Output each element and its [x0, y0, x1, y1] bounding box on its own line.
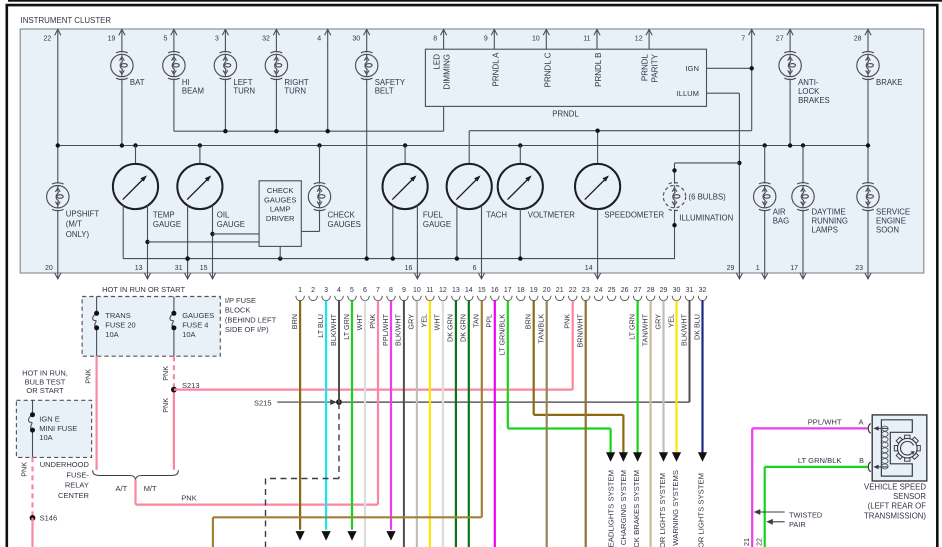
svg-text:CHECK: CHECK — [267, 186, 294, 195]
svg-text:7: 7 — [376, 287, 380, 294]
wire TEMP left to gauge rail — [122, 205, 124, 258]
svg-text:DIMMING: DIMMING — [443, 54, 452, 90]
svg-text:CHARGING SYSTEM: CHARGING SYSTEM — [619, 470, 628, 545]
svg-text:16: 16 — [491, 287, 499, 294]
wire bus to VOLTMETER — [519, 146, 521, 165]
svg-text:15: 15 — [200, 265, 208, 272]
wire PNK brace output — [134, 480, 136, 505]
svg-text:18: 18 — [517, 287, 525, 294]
svg-text:2: 2 — [311, 287, 315, 294]
svg-text:B: B — [859, 456, 864, 465]
connector terminal 24 — [594, 296, 603, 301]
splice S213 — [171, 387, 177, 393]
wire 3 LT BLU — [325, 301, 327, 530]
connector terminal 32 — [698, 296, 707, 301]
connector terminal 2 — [309, 296, 318, 301]
svg-text:28: 28 — [647, 287, 655, 294]
svg-text:ONLY): ONLY) — [66, 230, 90, 239]
svg-text:GAUGES: GAUGES — [264, 195, 297, 204]
svg-text:UPSHIFT: UPSHIFT — [66, 209, 100, 218]
svg-text:7: 7 — [741, 36, 745, 43]
wire 3 arrow — [322, 531, 331, 541]
ign rail — [469, 130, 752, 132]
svg-text:20: 20 — [543, 287, 551, 294]
svg-text:ILLUM: ILLUM — [677, 89, 699, 98]
wire UPSHIFT bulb to pin 20 — [57, 210, 59, 273]
svg-text:IGN: IGN — [685, 64, 699, 73]
node bus x=764.7 — [763, 143, 767, 147]
pin 31 bottom arrow — [187, 273, 189, 279]
svg-text:PPL: PPL — [485, 314, 494, 328]
node bus x=57.8 — [56, 143, 60, 147]
wire OIL left to pin 31 — [187, 205, 189, 273]
VSS terminal B cup — [868, 462, 870, 472]
gauge TACH — [447, 164, 492, 209]
connector terminal 19 — [529, 296, 538, 301]
indicator bulb ILLUMINATION (dashed) — [663, 183, 685, 211]
pin 32 arrow — [273, 29, 279, 35]
node OIL right - driver stub — [210, 232, 214, 236]
svg-text:BRN: BRN — [524, 314, 533, 329]
node lamp rail - pin 4 — [326, 129, 330, 133]
gauge VOLTMETER — [498, 164, 543, 209]
brace A/T M/T — [93, 470, 179, 479]
svg-text:UNDERHOOD: UNDERHOOD — [40, 460, 90, 469]
svg-text:TRANSMISSION): TRANSMISSION) — [864, 511, 926, 520]
wire 8 arrow — [386, 531, 395, 541]
svg-text:M/T: M/T — [144, 484, 157, 493]
svg-text:30: 30 — [673, 287, 681, 294]
pin 4 arrow — [325, 29, 331, 35]
wire VOLTMETER to gauge rail — [519, 209, 521, 259]
svg-text:25: 25 — [608, 287, 616, 294]
pin 20 bottom arrow — [57, 273, 59, 279]
wire bus to TEMP gauge — [135, 146, 137, 165]
svg-text:ILLUMINATION: ILLUMINATION — [679, 213, 733, 222]
node IGN - pin7 wire — [750, 66, 754, 70]
svg-text:ENGINE: ENGINE — [876, 216, 906, 225]
wire S215 rail — [339, 401, 690, 403]
svg-text:6: 6 — [363, 287, 367, 294]
connector terminal 1 — [296, 296, 305, 301]
svg-text:EXTERIOR LIGHTS SYSTEM: EXTERIOR LIGHTS SYSTEM — [696, 473, 705, 547]
indicator bulb RIGHT TURN — [265, 52, 287, 80]
fuse GAUGES FUSE 4 10A — [170, 313, 174, 328]
svg-text:VOLTMETER: VOLTMETER — [528, 211, 575, 220]
svg-text:DK GRN: DK GRN — [459, 314, 468, 342]
svg-text:19: 19 — [530, 287, 538, 294]
wire 17 LT GRN/BLK — [507, 301, 509, 429]
wire 8 PPL/WHT — [390, 301, 392, 530]
connector terminal 17 — [504, 296, 513, 301]
wire 6 WHT — [364, 301, 366, 547]
node lamp rail - LEFT TURN — [223, 129, 227, 133]
svg-text:5: 5 — [163, 36, 167, 43]
svg-text:PNK: PNK — [20, 462, 29, 477]
svg-text:HEADLIGHTS SYSTEM: HEADLIGHTS SYSTEM — [606, 470, 615, 547]
gauge rail — [123, 258, 675, 260]
gauge TEMP GAUGE — [113, 164, 158, 209]
gauge OIL GAUGE — [177, 164, 222, 209]
node lamp rail - RIGHT TURN — [274, 129, 278, 133]
wire ILLUM output — [707, 92, 740, 94]
connector terminal 4 — [335, 296, 344, 301]
pin 29 bottom arrow — [738, 273, 740, 279]
svg-text:CENTER: CENTER — [58, 491, 89, 500]
connector terminal 23 — [581, 296, 590, 301]
svg-text:DAYTIME: DAYTIME — [812, 207, 846, 216]
svg-text:29: 29 — [660, 287, 668, 294]
svg-text:TAN/WHT: TAN/WHT — [640, 313, 649, 346]
wire RIGHT TURN bulb to lamp rail — [275, 79, 277, 132]
wire DAYTIME bulb to pin 17 — [802, 210, 804, 273]
wire SERVICE bulb to pin 23 — [867, 210, 869, 273]
wire PPL/WHT to VSS — [752, 427, 868, 429]
wire 10 GRY — [416, 301, 418, 547]
wire pin 3 to LEFT TURN bulb — [224, 29, 226, 52]
wire 14 DK GRN — [468, 301, 470, 547]
wire TACH right to pin 6 — [481, 205, 483, 273]
svg-text:10A: 10A — [39, 433, 52, 442]
wire FUEL left to gauge rail — [392, 205, 394, 258]
connector terminal 5 — [348, 296, 357, 301]
svg-text:21: 21 — [742, 538, 751, 546]
wire TACH left to gauge rail — [456, 205, 458, 258]
wire BRAKE bulb to SERVICE bulb — [867, 79, 869, 184]
svg-text:ANTI-: ANTI- — [798, 78, 819, 87]
svg-text:SENSOR: SENSOR — [893, 492, 926, 501]
svg-text:GRY: GRY — [407, 314, 416, 330]
pin 12 arrow — [646, 29, 652, 35]
indicator bulb DAYTIME RUNNING LAMPS — [792, 183, 814, 211]
wire illumination bulb to gauge rail — [674, 210, 676, 259]
svg-text:6: 6 — [473, 265, 477, 272]
pin 3 arrow — [222, 29, 228, 35]
gauge SPEEDOMETER — [575, 164, 620, 209]
wire bus to CHECK GAUGES bulb — [319, 146, 321, 184]
wire AIR BAG bulb to pin 1 — [764, 210, 766, 273]
svg-text:VEHICLE SPEED: VEHICLE SPEED — [864, 482, 926, 491]
I/P fuse block box — [82, 297, 220, 357]
svg-text:BLOCK: BLOCK — [225, 306, 250, 315]
connector terminal 27 — [633, 296, 642, 301]
svg-text:12: 12 — [635, 36, 643, 43]
svg-text:PPL/WHT: PPL/WHT — [808, 417, 842, 426]
pin 27 arrow — [787, 29, 793, 35]
svg-text:(M/T: (M/T — [66, 220, 82, 229]
svg-text:LT GRN: LT GRN — [627, 314, 636, 340]
node gauge rail x=187.6 — [185, 256, 189, 260]
wire driver box to gauge rail — [279, 246, 281, 258]
lamp rail — [174, 130, 444, 132]
svg-text:1: 1 — [756, 265, 760, 272]
node bus x=405.1 — [403, 143, 407, 147]
wire pin 10 to PRNDL box — [545, 29, 547, 49]
wire PNK TRANS fuse output — [95, 356, 97, 470]
svg-text:PNK: PNK — [368, 314, 377, 329]
svg-text:BELT: BELT — [375, 87, 394, 96]
svg-text:(BEHIND LEFT: (BEHIND LEFT — [225, 315, 277, 324]
wire 19 arrow — [619, 452, 628, 462]
svg-text:19: 19 — [108, 36, 116, 43]
svg-text:SERVICE: SERVICE — [876, 207, 910, 216]
svg-text:GAUGES: GAUGES — [328, 220, 361, 229]
svg-text:LAMPS: LAMPS — [812, 225, 838, 234]
wire 23 BRN/WHT — [585, 301, 587, 547]
svg-text:4: 4 — [337, 287, 341, 294]
svg-text:3: 3 — [215, 36, 219, 43]
wire HI BEAM bulb to lamp rail — [173, 79, 175, 132]
svg-text:9: 9 — [402, 287, 406, 294]
fuse IGN E MINI FUSE 10A — [29, 415, 33, 430]
S215 pointer — [277, 401, 333, 403]
svg-text:DRIVER: DRIVER — [266, 214, 295, 223]
pin 30 arrow — [364, 29, 370, 35]
svg-text:10: 10 — [532, 36, 540, 43]
pin 8 arrow — [441, 29, 447, 35]
node gauge rail x=456.9 — [455, 256, 459, 260]
svg-text:29: 29 — [727, 265, 735, 272]
svg-text:FUEL: FUEL — [423, 211, 444, 220]
wire 19 BRN — [533, 301, 535, 415]
svg-text:I/P FUSE: I/P FUSE — [225, 296, 256, 305]
wire BAT bulb to bus — [121, 79, 123, 146]
svg-text:TRANS: TRANS — [105, 311, 130, 320]
indicator bulb BAT — [111, 52, 133, 80]
svg-text:BAT: BAT — [130, 78, 145, 87]
wire LED DIMMING drop — [443, 106, 445, 131]
pin 1 bottom arrow — [764, 273, 766, 279]
node bus x=199.9 — [198, 143, 202, 147]
svg-text:26: 26 — [621, 287, 629, 294]
wire 30 arrow — [672, 452, 681, 462]
svg-text:PRNDL: PRNDL — [552, 110, 579, 119]
VSS core bracket — [881, 420, 912, 476]
wire ANTI-LOCK bulb to bus — [789, 79, 791, 146]
connector terminal 26 — [620, 296, 629, 301]
svg-text:17: 17 — [790, 265, 798, 272]
VSS terminal B pin — [875, 466, 888, 468]
bus rail — [58, 145, 868, 147]
wire pin 27 to ANTI-LOCK bulb — [789, 29, 791, 52]
node OIL left - gauge rail — [185, 256, 189, 260]
svg-text:LT BLU: LT BLU — [316, 314, 325, 338]
wire 28 TAN/WHT — [649, 301, 651, 547]
pin 16 bottom arrow — [416, 273, 418, 279]
svg-text:30: 30 — [352, 36, 360, 43]
svg-text:A: A — [859, 417, 864, 426]
svg-text:S215: S215 — [254, 398, 272, 407]
svg-text:GAUGES: GAUGES — [182, 311, 214, 320]
node bus x=803.0 — [801, 143, 805, 147]
pin 7 arrow — [749, 29, 755, 35]
svg-text:31: 31 — [686, 287, 694, 294]
indicator bulb CHECK GAUGES — [308, 183, 330, 211]
UNDERHOOD fuse-relay box — [16, 400, 91, 457]
gauge FUEL GAUGE — [383, 164, 428, 209]
svg-text:(LEFT REAR OF: (LEFT REAR OF — [868, 502, 927, 511]
wire pin 22 to UPSHIFT — [57, 29, 59, 183]
VSS terminal A cup — [868, 424, 870, 434]
pin 6 bottom arrow — [481, 273, 483, 279]
wire 5 arrow — [347, 531, 356, 541]
wire 4 dashed run — [338, 403, 340, 479]
svg-text:HOT IN RUN OR START: HOT IN RUN OR START — [102, 285, 185, 294]
svg-text:10A: 10A — [105, 330, 118, 339]
wire PNK GAUGES fuse output — [173, 390, 175, 470]
svg-text:TURN: TURN — [284, 87, 306, 96]
twisted pair arrows — [757, 511, 785, 513]
node ILLUM wire - illumination branch — [737, 161, 741, 165]
wire PNK GAUGES fuse output dashed — [173, 356, 175, 389]
svg-text:PNK: PNK — [84, 369, 93, 384]
svg-text:LT GRN: LT GRN — [342, 314, 351, 340]
connector terminal 30 — [672, 296, 681, 301]
pin 22 arrow — [55, 29, 61, 35]
wire IGN E fuse feed — [32, 400, 34, 414]
svg-text:27: 27 — [776, 36, 784, 43]
svg-text:TAN/BLK: TAN/BLK — [537, 314, 546, 344]
connector terminal 15 — [478, 296, 487, 301]
wire pin 8 to PRNDL box — [443, 29, 445, 49]
node bus x=319.5 — [317, 143, 321, 147]
svg-text:PARITY: PARITY — [651, 53, 660, 82]
connector terminal 18 — [517, 296, 526, 301]
node bus x=790.1 — [788, 143, 792, 147]
svg-text:SIDE OF I/P): SIDE OF I/P) — [225, 325, 269, 334]
connector terminal 29 — [659, 296, 668, 301]
svg-text:EXTERIOR LIGHTS SYSTEM: EXTERIOR LIGHTS SYSTEM — [658, 473, 667, 547]
svg-text:TWISTED: TWISTED — [789, 511, 822, 520]
svg-text:OIL: OIL — [217, 211, 230, 220]
svg-text:TEMP: TEMP — [153, 211, 175, 220]
VSS terminal A pin — [875, 427, 888, 429]
pin 13 bottom arrow — [147, 273, 149, 279]
svg-text:DK GRN: DK GRN — [446, 314, 455, 342]
svg-text:PRNDL A: PRNDL A — [491, 52, 500, 87]
svg-text:GAUGE: GAUGE — [153, 220, 181, 229]
pin 15 bottom arrow — [212, 273, 214, 279]
wire OIL right to pin 15 — [212, 205, 214, 273]
svg-text:32: 32 — [262, 36, 270, 43]
svg-text:23: 23 — [582, 287, 590, 294]
svg-text:FUSE 4: FUSE 4 — [182, 320, 208, 329]
wire pin 5 to HI BEAM bulb — [173, 29, 175, 52]
svg-text:31: 31 — [175, 265, 183, 272]
svg-text:BLK/WHT: BLK/WHT — [329, 313, 338, 346]
wire 12 WHT — [442, 301, 444, 547]
node bus x=135.5 — [133, 143, 137, 147]
wire bus to FUEL gauge — [404, 146, 406, 165]
svg-text:AIR: AIR — [773, 207, 786, 216]
connector terminal 3 — [322, 296, 331, 301]
connector terminal 12 — [439, 296, 448, 301]
wire IGN output — [707, 67, 752, 69]
svg-text:A/T: A/T — [116, 484, 128, 493]
stub wire to driver box (13) — [148, 241, 260, 243]
pin 9 arrow — [491, 29, 497, 35]
svg-text:BLK/WHT: BLK/WHT — [394, 313, 403, 346]
node bus x=520.3 — [518, 143, 522, 147]
svg-text:ANTILOCK BRAKES SYSTEM: ANTILOCK BRAKES SYSTEM — [632, 470, 641, 547]
connector terminal 7 — [374, 296, 383, 301]
svg-text:BRAKE: BRAKE — [876, 78, 902, 87]
svg-text:9: 9 — [484, 36, 488, 43]
wire bus to OIL gauge — [199, 146, 201, 165]
svg-text:32: 32 — [699, 287, 707, 294]
wire 30 YEL — [675, 301, 677, 454]
wire pin 19 to BAT bulb — [121, 29, 123, 52]
svg-text:22: 22 — [755, 538, 764, 546]
wire pin 30 to SAFETY BELT bulb — [366, 29, 368, 52]
instrument cluster box — [20, 29, 924, 273]
svg-text:TURN: TURN — [233, 87, 255, 96]
wire bus to AIR BAG bulb — [764, 146, 766, 184]
wire 9 BLK/WHT — [403, 301, 405, 547]
pin 5 arrow — [171, 29, 177, 35]
indicator bulb AIR BAG — [754, 183, 776, 211]
wire PNK below S146 — [31, 518, 33, 547]
svg-text:PNK: PNK — [161, 398, 170, 413]
svg-text:RELAY: RELAY — [65, 481, 89, 490]
indicator bulb LEFT TURN — [214, 52, 236, 80]
node TEMP right - driver stub — [145, 240, 149, 244]
pin 17 bottom arrow — [802, 273, 804, 279]
node gauge rail x=392.8 — [391, 256, 395, 260]
svg-text:11: 11 — [583, 36, 590, 43]
svg-text:14: 14 — [465, 287, 473, 294]
wire 7 PNK — [377, 301, 379, 505]
wire CHECK GAUGES bulb to driver box — [319, 210, 321, 232]
svg-text:FUSE 20: FUSE 20 — [105, 320, 135, 329]
svg-text:PNK: PNK — [181, 494, 196, 503]
svg-text:LT GRN/BLK: LT GRN/BLK — [798, 456, 842, 465]
svg-text:27: 27 — [634, 287, 642, 294]
svg-text:BRAKES: BRAKES — [798, 96, 830, 105]
indicator bulb BRAKE — [857, 52, 879, 80]
node bus x=121.9 — [120, 143, 124, 147]
wire SPEEDOMETER to pin 14 — [597, 209, 599, 273]
node illumination bulb top — [672, 168, 676, 172]
connector terminal 31 — [685, 296, 694, 301]
connector terminal 20 — [542, 296, 551, 301]
wire 32 DK BLU — [701, 301, 703, 454]
connector terminal 28 — [646, 296, 655, 301]
svg-text:TAN: TAN — [472, 314, 481, 328]
wire pin 7 IGN feed — [751, 29, 753, 130]
VSS reluctor wheel — [894, 435, 920, 461]
svg-text:YEL: YEL — [666, 314, 675, 328]
connector terminal 22 — [568, 296, 577, 301]
node ign rail - speedometer — [595, 129, 599, 133]
wire 5 LT GRN — [351, 301, 353, 530]
svg-text:TACH: TACH — [486, 211, 507, 220]
wire PNK S213 rail — [174, 389, 573, 391]
svg-text:BRN/WHT: BRN/WHT — [576, 313, 585, 347]
node gauge rail x=520.3 — [518, 256, 522, 260]
pin 10 arrow — [543, 29, 549, 35]
pin 23 bottom arrow — [867, 273, 869, 279]
svg-text:LAMP: LAMP — [270, 205, 291, 214]
svg-text:PNK: PNK — [161, 366, 170, 381]
connector terminal 9 — [400, 296, 409, 301]
wire 29 GRY — [662, 301, 664, 454]
svg-text:LOCK: LOCK — [798, 87, 820, 96]
wire 20 TAN/BLK — [546, 301, 548, 547]
svg-text:BRN: BRN — [290, 314, 299, 329]
svg-text:20: 20 — [45, 265, 53, 272]
svg-text:14: 14 — [585, 265, 593, 272]
